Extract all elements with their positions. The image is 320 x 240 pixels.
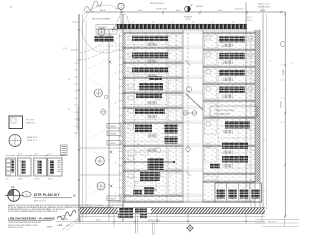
svg-text:22': 22' — [232, 22, 235, 24]
svg-text:16: 16 — [115, 163, 117, 165]
svg-text:P.S.M.: P.S.M. — [66, 225, 71, 227]
svg-text:YD: YD — [170, 38, 172, 40]
svg-text:22': 22' — [192, 22, 195, 24]
svg-text:YD: YD — [170, 113, 172, 115]
svg-text:DETAIL N.T.S.: DETAIL N.T.S. — [27, 139, 38, 142]
svg-text:S89°52'W 264.00': S89°52'W 264.00' — [148, 220, 161, 222]
svg-text:J. RM: J. RM — [57, 225, 62, 227]
svg-text:YD: YD — [170, 83, 172, 85]
svg-text:N89°52'E 264.00': N89°52'E 264.00' — [150, 3, 165, 5]
svg-text:WHEEL STOP: WHEEL STOP — [27, 137, 37, 139]
svg-text:22': 22' — [152, 22, 155, 24]
svg-text:PHONE (305) 624-1954: PHONE (305) 624-1954 — [8, 227, 23, 229]
svg-text:NW 179TH STREET: NW 179TH STREET — [92, 18, 111, 20]
svg-text:RECREATION AREA: RECREATION AREA — [214, 113, 231, 116]
svg-text:ASPHALT: ASPHALT — [196, 5, 204, 8]
svg-text:15801 N.W. 2ND COURT MIAMI,: 15801 N.W. 2ND COURT MIAMI, FLORIDA — [8, 224, 37, 227]
svg-text:1: 1 — [120, 5, 122, 8]
svg-text:16: 16 — [115, 193, 117, 195]
svg-text:SEC: SEC — [6, 178, 9, 180]
svg-text:PORCH: PORCH — [109, 133, 116, 135]
svg-text:44'-0": 44'-0" — [176, 10, 181, 12]
svg-text:IP NO ID: IP NO ID — [246, 20, 253, 22]
svg-text:PORCH: PORCH — [109, 126, 116, 128]
svg-text:25': 25' — [68, 109, 71, 111]
svg-text:YD: YD — [170, 98, 172, 100]
svg-text:PAVER DET.: PAVER DET. — [26, 122, 36, 125]
svg-text:3/32" TO 1'-0": 3/32" TO 1'-0" — [34, 200, 47, 202]
svg-text:½ ASPHALT PVMT: ½ ASPHALT PVMT — [155, 7, 167, 11]
svg-text:UNIT A: UNIT A — [48, 177, 53, 180]
svg-text:10': 10' — [269, 61, 272, 63]
svg-text:INTERIOR: INTERIOR — [184, 16, 193, 18]
svg-text:FND 1/2": FND 1/2" — [246, 17, 253, 19]
svg-text:6': 6' — [186, 104, 188, 106]
svg-text:17'-0": 17'-0" — [35, 154, 39, 156]
svg-text:YD: YD — [170, 68, 172, 70]
svg-text:SITE PLAN S/Y: SITE PLAN S/Y — [34, 193, 61, 197]
svg-text:PORCH: PORCH — [109, 143, 116, 145]
svg-text:22': 22' — [172, 22, 175, 24]
svg-text:17'-0": 17'-0" — [48, 154, 52, 156]
svg-text:84.04': 84.04' — [100, 10, 106, 12]
svg-text:TYP. UNIT: TYP. UNIT — [26, 120, 34, 122]
svg-text:UNIT A: UNIT A — [18, 177, 23, 180]
svg-text:EDGE PVMT: EDGE PVMT — [235, 9, 243, 11]
svg-text:1 OF 1: 1 OF 1 — [47, 226, 52, 228]
svg-text:17'-0": 17'-0" — [19, 154, 23, 156]
svg-text:COURT: COURT — [185, 19, 191, 21]
svg-text:CONSULTING ENGINEERS LAND SUR: CONSULTING ENGINEERS LAND SURVEYORS — [8, 221, 41, 224]
svg-text:COMMON OPEN SPACE: COMMON OPEN SPACE — [214, 109, 235, 112]
svg-text:264.00': 264.00' — [283, 69, 285, 75]
svg-text:16: 16 — [115, 43, 117, 45]
svg-text:25': 25' — [292, 63, 295, 65]
svg-text:AMENDED PLAT OF GOLDEN GLADES: AMENDED PLAT OF GOLDEN GLADES PARK SEC 2… — [8, 204, 124, 207]
svg-text:22': 22' — [212, 22, 215, 24]
svg-text:44'-0": 44'-0" — [218, 10, 223, 12]
svg-text:84.04': 84.04' — [96, 220, 101, 222]
svg-text:16: 16 — [115, 103, 117, 105]
svg-text:YD: YD — [170, 53, 172, 55]
svg-text:YD: YD — [170, 151, 172, 153]
svg-text:S00°08'W: S00°08'W — [281, 101, 283, 108]
svg-text:UNIT A: UNIT A — [34, 177, 39, 180]
svg-text:YD: YD — [170, 176, 172, 178]
svg-text:SCALE: 1"=20': SCALE: 1"=20' — [258, 3, 270, 6]
svg-text:22': 22' — [132, 22, 135, 24]
svg-text:LRM ENGINEERING • PLANNING: LRM ENGINEERING • PLANNING — [8, 217, 55, 221]
svg-text:BASIS OF BRG: BASIS OF BRG — [258, 6, 271, 9]
svg-text:SITE: SITE — [11, 187, 15, 189]
svg-text:16: 16 — [115, 73, 117, 75]
svg-text:25': 25' — [68, 79, 71, 81]
svg-text:44'-0": 44'-0" — [138, 10, 143, 12]
svg-text:N W 2 N D A V E N U E: N W 2 N D A V E N U E — [77, 107, 80, 130]
svg-text:PORCH: PORCH — [109, 198, 116, 200]
svg-text:1: 1 — [25, 193, 27, 197]
svg-text:S.O.B.: S.O.B. — [63, 48, 68, 50]
svg-text:FND 1/2" IP: FND 1/2" IP — [268, 221, 276, 223]
